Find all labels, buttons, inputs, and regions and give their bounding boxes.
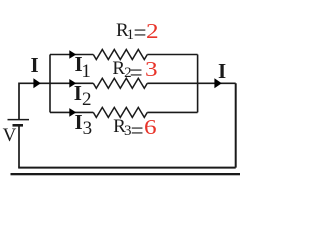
wire bottom (18, 167, 236, 169)
label I right (218, 59, 226, 84)
label I left (31, 53, 39, 78)
node left junction vertical (49, 55, 51, 113)
arrow current I1 (69, 50, 76, 59)
wire left vertical to battery (18, 83, 20, 120)
label R1=2 (116, 20, 129, 42)
node right junction vertical (197, 55, 199, 113)
wire branch 1 (50, 54, 198, 56)
resistor R2 zigzag (93, 78, 147, 88)
arrow current I left (33, 78, 40, 88)
arrow current I2 (69, 79, 76, 88)
label V (3, 125, 17, 147)
wire battery to bottom (18, 125, 20, 167)
wire branch 3 (50, 111, 198, 113)
arrow current I3 (69, 108, 76, 117)
wire branch 2 (50, 82, 198, 84)
label R3=6 (113, 116, 126, 138)
label I3 (75, 110, 83, 135)
arrow current I right (214, 78, 221, 88)
resistor R1 zigzag (93, 50, 147, 60)
figure bottom rule (11, 173, 241, 175)
wire right vertical (235, 83, 237, 167)
wire left horizontal with current I (19, 82, 50, 84)
battery V short plate (13, 124, 24, 127)
label I2 (74, 81, 82, 106)
label R2=3 (112, 58, 125, 80)
resistor R3 zigzag (93, 107, 147, 117)
battery V long plate (8, 119, 30, 121)
label I1 (75, 52, 83, 77)
wire right horizontal with current I (198, 82, 236, 84)
